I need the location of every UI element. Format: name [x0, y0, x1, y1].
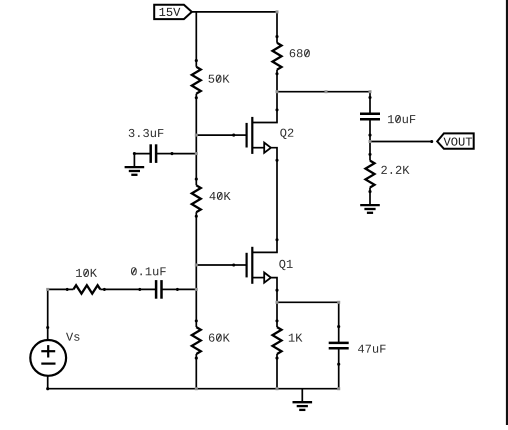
wire cap node to R 40K	[195, 154, 197, 180]
node mid wire	[325, 90, 328, 93]
label 1K	[289, 334, 303, 342]
capacitor C2 0.1uF	[138, 280, 179, 299]
label Vs	[66, 333, 79, 341]
wire VOUT node to R 2.2K	[369, 142, 371, 155]
wire gate node to cap node	[195, 135, 197, 154]
wire to Q1 gate	[196, 264, 233, 266]
node rail 60K	[195, 387, 198, 390]
label 50K	[209, 75, 230, 83]
resistor R3 10K	[66, 285, 106, 293]
resistor R2 40K	[192, 178, 201, 218]
wire node to R 1K	[276, 302, 278, 321]
wire mid to 10uF corner	[326, 91, 370, 93]
capacitor C4 10uF	[360, 96, 380, 137]
transistor Q2	[232, 108, 278, 162]
capacitor C1 3.3uF	[133, 144, 174, 163]
wire to VOUT flag	[370, 141, 432, 143]
wire Q1 source to node	[276, 290, 278, 302]
label 680	[290, 49, 310, 57]
wire gate node to input node	[195, 265, 197, 289]
label Q1	[279, 260, 292, 270]
node Q1 gate junction	[195, 264, 198, 267]
label 10uF	[388, 115, 415, 123]
wire corner to C 47uF	[338, 302, 340, 326]
power flag 15V	[154, 5, 192, 19]
wire 680 to Q2 drain	[276, 74, 278, 110]
frame right border	[506, 0, 508, 425]
resistor R4 60K	[192, 319, 201, 359]
resistor R6 1K	[273, 319, 282, 359]
node Q1 source junction	[276, 301, 279, 304]
node 10uF corner	[369, 90, 372, 93]
wire top rail	[192, 11, 277, 13]
node rail 1K	[276, 387, 279, 390]
wire Q2 source to Q1 drain	[276, 160, 278, 240]
wire 10uF to VOUT node	[369, 135, 371, 141]
resistor R5 680	[273, 35, 282, 75]
label 3.3uF	[129, 129, 164, 137]
output flag VOUT	[437, 133, 474, 148]
node VOUT junction	[369, 140, 372, 143]
label Q2	[280, 129, 293, 139]
wire corner down to Vs	[47, 289, 49, 327]
source Vs	[30, 326, 66, 390]
transistor Q1	[232, 238, 278, 292]
wire 0.1uF to node	[177, 288, 196, 290]
resistor R7 2.2K	[366, 153, 375, 193]
node top-right corner	[276, 10, 279, 13]
wire top to R 680	[276, 12, 278, 37]
node 0.1uF junction	[195, 288, 198, 291]
wire 50K to gate node	[195, 98, 197, 135]
label 10K	[76, 269, 97, 277]
node 47uF top corner	[337, 301, 340, 304]
label 47uF	[358, 345, 386, 353]
ground G3	[293, 389, 313, 410]
capacitor C3 47uF	[329, 325, 349, 366]
wire to Q2 gate	[196, 134, 233, 136]
ground G2	[360, 192, 380, 213]
wire 3.3uF to node	[172, 153, 196, 155]
node rail 47uF	[337, 387, 340, 390]
wire bottom rail	[48, 388, 339, 390]
wire 10K to 0.1uF	[104, 288, 139, 290]
node drain junction	[276, 90, 279, 93]
pin wire end at VOUT	[430, 140, 433, 143]
wire 47uF to bottom rail	[338, 364, 340, 389]
wire 1K to bottom rail	[276, 358, 278, 389]
label 0.1uF	[131, 267, 166, 275]
wire 40K to Q1 gate node	[195, 216, 197, 265]
wire 60K to bottom rail	[195, 358, 197, 389]
node Q2 gate junction	[195, 134, 198, 137]
node 3.3uF junction	[195, 152, 198, 155]
wire drain node to mid	[277, 91, 326, 93]
wire 15V to R 50K	[195, 12, 197, 61]
label 40K	[210, 192, 231, 200]
wire corner to C 10uF	[369, 92, 371, 98]
label 2.2K	[381, 166, 409, 174]
ground G1	[125, 154, 145, 175]
label 60K	[209, 333, 230, 341]
wire node to 47uF	[277, 301, 339, 303]
wire input node to R 60K	[195, 289, 197, 321]
wire corner to R 10K	[48, 288, 67, 290]
node input corner	[46, 288, 49, 291]
resistor R1 50K	[192, 59, 201, 99]
